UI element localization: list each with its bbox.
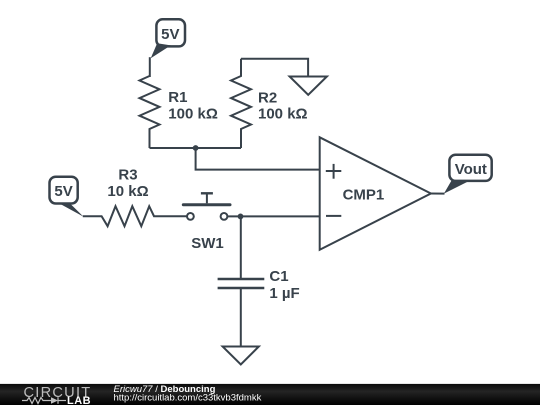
net label 5V (top)	[156, 19, 185, 46]
pointer of left 5V label	[58, 203, 84, 217]
svg-text:R1: R1	[168, 89, 187, 106]
svg-text:100 kΩ: 100 kΩ	[258, 106, 308, 123]
wire R1 bottom to R2 bottom	[150, 147, 242, 149]
wire node B down to C1	[240, 216, 242, 279]
ground (top right)	[290, 77, 327, 95]
svg-text:R3: R3	[118, 167, 137, 184]
svg-text:10 kΩ: 10 kΩ	[107, 183, 148, 200]
svg-text:1 µF: 1 µF	[269, 285, 299, 302]
plus input marker	[326, 164, 342, 179]
svg-text:100 kΩ: 100 kΩ	[168, 106, 218, 123]
minus input marker	[326, 215, 341, 217]
wire SW1 to - input	[228, 215, 320, 217]
wire C1 to ground	[240, 288, 242, 347]
ground (bottom)	[223, 347, 259, 365]
resistor R3	[83, 206, 187, 226]
wire junction to + input	[196, 148, 320, 170]
switch SW1 actuator bar	[183, 203, 230, 206]
switch SW1 actuator cap	[201, 192, 213, 194]
pointer of Vout label	[444, 181, 469, 194]
footer credit line	[114, 384, 262, 404]
switch SW1 right contact	[221, 213, 228, 220]
CircuitLab logo resistor-diode squiggle	[22, 397, 66, 404]
svg-text:5V: 5V	[54, 183, 72, 200]
svg-text:CMP1: CMP1	[343, 186, 385, 203]
svg-text:5V: 5V	[161, 26, 179, 43]
svg-text:C1: C1	[269, 268, 288, 285]
op-amp comparator CMP1 body	[320, 137, 431, 250]
net label 5V (left)	[50, 177, 78, 204]
svg-text:http://circuitlab.com/c33tkvb3: http://circuitlab.com/c33tkvb3fdmkk	[114, 392, 262, 403]
switch SW1 left contact	[187, 213, 194, 220]
wire 5V to R1	[149, 57, 151, 77]
output wire	[431, 193, 445, 195]
junction node A	[193, 145, 199, 151]
net label Vout	[449, 155, 491, 181]
resistor R1	[140, 76, 160, 148]
resistor R2	[231, 59, 251, 148]
pointer of top 5V label	[151, 43, 171, 58]
capacitor C1 bottom plate	[218, 287, 265, 289]
capacitor C1 top plate	[218, 278, 265, 280]
switch SW1 actuator stem	[206, 193, 208, 203]
svg-text:Vout: Vout	[455, 161, 487, 178]
svg-text:R2: R2	[258, 89, 277, 106]
svg-text:SW1: SW1	[191, 235, 224, 252]
svg-text:LAB: LAB	[67, 395, 91, 405]
footer bar	[0, 384, 540, 405]
wire R2 top to ground	[241, 59, 308, 77]
junction node B	[238, 214, 244, 220]
